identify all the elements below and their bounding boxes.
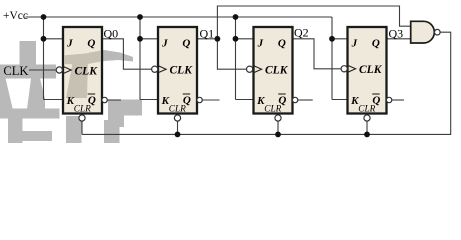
wire Q0 to CLK2	[102, 39, 152, 69]
svg-text:CLR: CLR	[169, 104, 186, 114]
flip-flop U2 box	[152, 27, 203, 121]
svg-text:CLR: CLR	[74, 104, 91, 114]
svg-text:J: J	[66, 38, 73, 50]
NAND gate U5	[411, 21, 440, 43]
wire CLR stub FF2	[177, 121, 179, 134]
flip-flop U4 box	[341, 27, 392, 121]
svg-text:Q0: Q0	[104, 27, 119, 41]
wire Q-bar stub FF1	[107, 99, 121, 101]
wire Vcc drop 3 (J3/K3)	[236, 17, 254, 100]
wire CLR stub FF3	[277, 121, 279, 134]
svg-text:CLK: CLK	[170, 65, 194, 77]
wire NAND output down right side to CLR rail	[82, 32, 451, 134]
flip-flop U3 box	[247, 27, 298, 121]
svg-text:+Vcc: +Vcc	[3, 10, 28, 22]
watermark	[0, 41, 142, 143]
wire Vcc drop 1 (J1/K1)	[44, 17, 64, 100]
svg-text:Q: Q	[87, 38, 95, 50]
svg-text:Q: Q	[182, 38, 190, 50]
wire Q2 to CLK4	[293, 39, 342, 69]
wire Vcc rail	[26, 16, 333, 18]
wire Q3 to NAND bottom input	[387, 38, 411, 40]
flip-flop U1 box	[56, 27, 133, 121]
wire Q1 feedback to NAND top input	[217, 6, 410, 39]
wire CLK input	[29, 69, 56, 71]
wire Q-bar stub FF4	[392, 99, 404, 101]
node junction dots on Vcc rail	[41, 14, 47, 20]
svg-text:J: J	[351, 38, 358, 50]
svg-text:CLK: CLK	[3, 64, 28, 78]
svg-text:Q: Q	[278, 38, 286, 50]
wire Q-bar stub FF2	[202, 99, 219, 101]
wire Q-bar stub FF3	[298, 99, 313, 101]
svg-text:Q1: Q1	[200, 27, 215, 41]
svg-text:J: J	[257, 38, 264, 50]
node junction dots at J level	[41, 36, 47, 42]
wire Vcc drop 2 (J2/K2)	[140, 17, 158, 100]
wire Q1 to CLK3	[197, 39, 247, 69]
svg-text:CLK: CLK	[265, 65, 289, 77]
wire Vcc drop 4 (J4/K4)	[332, 17, 348, 100]
svg-text:CLR: CLR	[358, 104, 375, 114]
wire CLR stub FF4	[366, 121, 368, 134]
svg-text:CLR: CLR	[264, 104, 281, 114]
svg-text:J: J	[161, 38, 168, 50]
svg-text:Q3: Q3	[389, 27, 404, 41]
svg-text:Q2: Q2	[294, 26, 309, 40]
svg-text:Q: Q	[372, 38, 380, 50]
svg-text:CLK: CLK	[359, 64, 383, 76]
svg-text:CLK: CLK	[75, 66, 99, 78]
node junction dots on CLR rail	[175, 132, 181, 138]
